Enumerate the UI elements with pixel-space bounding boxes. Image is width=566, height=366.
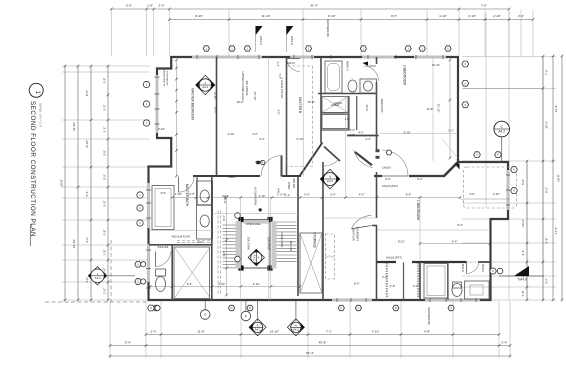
svg-text:30x SPACE: 30x SPACE (245, 80, 249, 95)
title sheet number circle (29, 83, 43, 97)
interior dim column bed2 east (449, 60, 451, 158)
svg-text:3'-5": 3'-5" (102, 78, 106, 84)
detail flag small in bath (363, 62, 369, 67)
svg-text:6'-6": 6'-6" (385, 177, 391, 181)
interior wall hall diagonal south (324, 147, 340, 162)
svg-text:MASTER BEDROOM: MASTER BEDROOM (191, 88, 195, 120)
stair stringer bar right (272, 221, 277, 269)
section marker bottom leader 1 (257, 301, 259, 321)
dimension column left segments (85, 65, 92, 302)
door bath1 (467, 261, 480, 274)
interior wall bath1 north (412, 261, 466, 263)
svg-text:4'-2": 4'-2" (358, 131, 364, 135)
svg-text:5'-4": 5'-4" (125, 340, 131, 344)
svg-text:1/6x1/6 (PKT): 1/6x1/6 (PKT) (386, 255, 402, 259)
dimension row bottom overall (109, 351, 512, 358)
grid bubble bottom x451.1 (448, 305, 454, 310)
svg-text:4'-2": 4'-2" (252, 132, 258, 136)
svg-text:2'-10": 2'-10" (468, 14, 476, 18)
svg-text:5'-6": 5'-6" (304, 192, 310, 196)
window mullion ticks deck wall (506, 175, 510, 205)
wic shelf and pole dashed (177, 240, 212, 242)
shear tag left lower y281.5 (135, 279, 141, 285)
svg-text:3'-0": 3'-0" (102, 201, 106, 207)
svg-text:8'-2": 8'-2" (545, 187, 549, 193)
master bath tub (152, 186, 174, 230)
svg-text:9'-5": 9'-5" (391, 14, 397, 18)
svg-text:20'-0": 20'-0" (236, 100, 243, 104)
svg-text:41'-4": 41'-4" (310, 3, 318, 7)
svg-text:4'-6": 4'-6" (469, 192, 475, 196)
master toilet tank (156, 269, 166, 276)
svg-text:A: A (450, 306, 452, 310)
svg-text:2'-6": 2'-6" (197, 240, 203, 244)
dimension row bottom segments (145, 329, 501, 336)
svg-text:4'-10": 4'-10" (218, 282, 225, 286)
svg-text:SHOWER DN: SHOWER DN (326, 19, 330, 36)
interior wall wic-hall vertical (211, 176, 213, 300)
door deck (382, 150, 408, 176)
detail circle C leader (501, 137, 503, 162)
exterior wall bottom (148, 299, 492, 301)
window glazing bottom wall (332, 299, 480, 301)
dimension column right inner (521, 160, 528, 302)
detail circle C/A4.2 deck (494, 121, 510, 137)
svg-text:20'-10": 20'-10" (253, 92, 257, 101)
interior wall toilet room east (196, 176, 198, 205)
door bath2 (364, 66, 379, 81)
interior dim column wic-stairs (226, 198, 228, 296)
svg-text:9'-10": 9'-10" (403, 131, 410, 135)
svg-text:15'-8": 15'-8" (308, 100, 315, 104)
stair newel posts (238, 217, 243, 222)
svg-text:4'-2": 4'-2" (85, 237, 89, 243)
svg-text:3'-2": 3'-2" (222, 251, 226, 257)
interior wall bedroom1 west upper (376, 172, 378, 218)
svg-text:17'-6": 17'-6" (554, 227, 558, 235)
svg-text:26'-2": 26'-2" (521, 219, 525, 227)
svg-text:8'-1": 8'-1" (222, 215, 226, 221)
exterior wall deck top (457, 161, 509, 163)
exterior wall right upper (457, 56, 459, 163)
svg-text:2'-1": 2'-1" (448, 129, 454, 133)
svg-text:8'-10": 8'-10" (195, 14, 203, 18)
laundry washer dashed (326, 234, 335, 256)
wall stub wic east (281, 156, 283, 177)
svg-text:8'-11": 8'-11" (398, 239, 405, 243)
interior wall hall north (193, 175, 260, 177)
grid bubble bottom x395.8 (393, 305, 399, 310)
svg-text:2'-0": 2'-0" (159, 3, 165, 7)
interior horizontal guide bed1 (377, 229, 490, 231)
extension lines top (111, 10, 533, 301)
interior horizontal guide master (150, 230, 212, 232)
svg-text:1'-10": 1'-10" (175, 192, 182, 196)
door jamb blocks bedroom2 (376, 149, 380, 152)
svg-text:4'-3": 4'-3" (359, 192, 365, 196)
section marker master bedroom 2/A4.1 (196, 75, 215, 94)
svg-text:6'-6": 6'-6" (406, 192, 412, 196)
svg-text:SHOWER DN: SHOWER DN (427, 307, 431, 324)
svg-text:LAUNDRY: LAUNDRY (356, 227, 360, 241)
window tag left lower y223 (137, 220, 143, 226)
bath1 tub (424, 264, 448, 299)
section marker left 1/A4.2 (88, 267, 106, 285)
interior wall storage east (322, 162, 324, 300)
interior dim deck width (463, 87, 543, 89)
interior wall vanity divider (447, 262, 449, 300)
master vanity sink 1 (200, 190, 209, 202)
svg-text:2'-0": 2'-0" (151, 329, 157, 333)
shear tag right (465.3,83.3) (462, 80, 469, 86)
bath1 toilet tank (453, 282, 462, 288)
window tag left upper y123 (143, 120, 149, 126)
master bath tub inner (155, 189, 171, 227)
window tag left upper y104 (143, 101, 149, 107)
dimension row bottom subtotal (109, 340, 512, 347)
upper bath tub (325, 61, 342, 93)
hex tag bedroom2 door (386, 150, 392, 155)
svg-text:2/A4.0: 2/A4.0 (259, 36, 263, 45)
bath1 vanity (465, 281, 490, 299)
svg-text:15'-0": 15'-0" (214, 106, 218, 113)
grid bubble bottom x358.4 (355, 305, 361, 310)
svg-text:2'-2": 2'-2" (413, 284, 419, 288)
door header tag square (256, 161, 259, 164)
detail circle leader D (204, 301, 206, 310)
dashed projection vertical lower-left (110, 240, 112, 302)
svg-text:A4.2: A4.2 (293, 327, 299, 331)
svg-text:10'-11": 10'-11" (432, 63, 440, 67)
svg-text:5'-6": 5'-6" (330, 192, 336, 196)
shear tag right (514,190.6) (511, 188, 518, 194)
dashed projection line lower-left (45, 301, 146, 303)
svg-text:B/A4.0: B/A4.0 (481, 264, 485, 272)
interior horizontal guide stairs upper (212, 213, 300, 215)
master bedroom tray ceiling dashed (287, 66, 312, 167)
svg-text:MASTER B: MASTER B (298, 97, 302, 113)
svg-text:1 3/4x11 7/8 LVL: 1 3/4x11 7/8 LVL (280, 78, 284, 99)
exterior wall bay vertical (170, 137, 172, 167)
interior dim line bedroom2 (380, 133, 457, 135)
svg-text:20'-2": 20'-2" (545, 121, 549, 129)
window tag left upper y84.5 (143, 81, 149, 87)
hall closet shelf (322, 115, 348, 129)
svg-text:29'-8": 29'-8" (60, 179, 64, 187)
stair rail tag circle upper (235, 213, 241, 219)
svg-text:8'-0": 8'-0" (354, 281, 360, 285)
shear tag right (465.3,64) (462, 61, 469, 67)
svg-text:36R DN: 36R DN (292, 178, 296, 188)
svg-text:C: C (357, 306, 359, 310)
grid bubble top x448 (445, 46, 451, 51)
svg-text:15'-10": 15'-10" (270, 329, 279, 333)
svg-text:4'-8": 4'-8" (424, 329, 430, 333)
svg-text:LINEN: LINEN (334, 101, 342, 105)
interior wall bath south (318, 93, 377, 95)
svg-text:A4.1: A4.1 (202, 85, 208, 89)
stair treads main run (277, 222, 297, 262)
section marker bottom 5/A4.2 (249, 319, 266, 336)
svg-text:2'-10": 2'-10" (493, 192, 500, 196)
interior horizontal guide laundry (323, 217, 377, 219)
interior wall bath east upper (376, 57, 378, 64)
detail circle bottom E (241, 311, 251, 321)
svg-text:5'-2": 5'-2" (417, 177, 423, 181)
stair rail tag circle lower (235, 256, 241, 262)
window glazing deck wall (507, 170, 509, 210)
interior vertical guide stair right (270, 197, 272, 301)
svg-text:8'-10": 8'-10" (85, 140, 89, 148)
interior wall bath west (320, 57, 322, 143)
master shower (174, 247, 210, 299)
extension lines left (62, 66, 150, 300)
svg-text:SCALE: 1/4" = 1'-0": SCALE: 1/4" = 1'-0" (39, 103, 43, 127)
door toilet room (156, 252, 171, 267)
svg-text:4'-0": 4'-0" (85, 277, 89, 283)
shear tag right (477,154.7) (474, 152, 481, 158)
interior wall hall diagonal north (300, 143, 322, 176)
svg-text:2'-2": 2'-2" (102, 127, 106, 133)
upper bath vanity (360, 79, 377, 93)
shear tag bottom-left (148, 305, 155, 311)
window glazing top wall (192, 56, 446, 58)
window tag left lower y195 (137, 192, 143, 198)
interior wall closet south (321, 129, 349, 131)
svg-text:1'-8": 1'-8" (102, 250, 106, 256)
svg-text:5'-8": 5'-8" (545, 238, 549, 244)
svg-text:OPEN RAIL: OPEN RAIL (280, 233, 284, 248)
master vanity (197, 181, 213, 239)
svg-text:1 BEDROOM: 1 BEDROOM (416, 200, 420, 221)
section marker hall 3/A4.2 (320, 169, 340, 189)
interior dim column master bedroom (176, 60, 178, 176)
bath1 toilet (452, 284, 462, 297)
svg-text:4'-10": 4'-10" (227, 132, 234, 136)
svg-text:2'-4": 2'-4" (502, 340, 508, 344)
title underline (29, 224, 31, 246)
svg-text:8'-5": 8'-5" (85, 90, 89, 96)
svg-text:9'-4": 9'-4" (457, 223, 463, 227)
exterior wall jog at deck (490, 218, 510, 220)
svg-text:12'-2": 12'-2" (554, 105, 558, 113)
interior vertical guide bath hallway (302, 57, 304, 176)
exterior wall top (170, 56, 458, 58)
shear tag right (514,169.6) (511, 167, 518, 173)
door laundry (322, 160, 338, 166)
stair top rail bar (244, 220, 270, 224)
grid bubble top x408.1 (405, 46, 411, 51)
svg-text:BATH: BATH (461, 264, 465, 272)
exterior wall top-left notch vertical (170, 56, 172, 69)
interior wall wic east (356, 96, 358, 130)
closet shelf strip left (386, 263, 388, 298)
svg-text:42 GUARDRAIL: 42 GUARDRAIL (254, 187, 258, 206)
leader diagonal to deck wall (442, 139, 458, 158)
window mullion ticks top wall (197, 55, 443, 59)
exterior wall west of deck door (374, 175, 382, 177)
dimension column far-left overall (60, 65, 67, 302)
svg-text:HALL: HALL (229, 175, 236, 179)
exterior wall notch horizontal (156, 67, 172, 69)
interior wall linen east (348, 96, 350, 130)
exterior wall left upper (156, 68, 158, 139)
dimension column right overall (557, 55, 564, 302)
interior wall bath1 north east piece (478, 261, 491, 263)
svg-text:7'-2": 7'-2" (545, 69, 549, 75)
grid bubble top x363.4 (360, 46, 366, 51)
svg-text:C: C (340, 306, 342, 310)
section marker bottom leader 2 (295, 301, 297, 321)
svg-text:9'-10": 9'-10" (328, 14, 336, 18)
svg-text:2'-8": 2'-8" (349, 133, 355, 137)
extension lines bottom (110, 301, 510, 358)
interior wall shower west (171, 245, 173, 300)
svg-text:2'-2": 2'-2" (382, 275, 388, 279)
shear tag right (498,154.7) (495, 152, 502, 158)
svg-text:3'-10": 3'-10" (158, 127, 165, 131)
svg-text:11'-8": 11'-8" (427, 107, 434, 111)
grid bubble top x422.2 (419, 46, 425, 51)
svg-text:(2x4 FLAT): (2x4 FLAT) (352, 229, 355, 241)
interior wall bath hallway west (286, 58, 288, 175)
svg-text:2'-0": 2'-0" (189, 192, 195, 196)
svg-text:3'-4": 3'-4" (349, 128, 355, 132)
detail circle C text (494, 128, 510, 130)
svg-text:1'-4": 1'-4" (276, 61, 280, 67)
interior dim line bed1 closet (420, 243, 490, 245)
grid bubble bottom x250 (247, 305, 253, 310)
svg-text:BATH 2: BATH 2 (346, 61, 350, 71)
laundry dryer dashed (326, 257, 335, 279)
svg-text:D: D (231, 306, 233, 310)
svg-text:E: E (245, 314, 247, 318)
interior wall bedroom1 south (377, 261, 396, 263)
master shower diagonals (174, 247, 211, 299)
svg-text:45'-8": 45'-8" (319, 340, 327, 344)
svg-text:SECOND FLOOR CONSTRUCTION PLAN: SECOND FLOOR CONSTRUCTION PLAN (29, 101, 36, 237)
svg-text:5'-1": 5'-1" (85, 191, 89, 197)
door header tag circle (261, 160, 265, 164)
stairwell railing box (241, 220, 270, 269)
interior vertical guide bed2 closet (432, 57, 434, 161)
svg-text:4'-10": 4'-10" (258, 194, 265, 198)
shear tag left lower y264.3 (135, 262, 141, 268)
grid bubble bottom x231.6 (229, 305, 235, 310)
grid bubble top x247.4 (244, 46, 250, 51)
svg-text:STOR BELOW: STOR BELOW (166, 71, 168, 86)
svg-text:2 BEDROOM: 2 BEDROOM (403, 65, 407, 86)
svg-text:4'-10": 4'-10" (439, 14, 447, 18)
tag circle left lower y264.3 (141, 262, 146, 267)
svg-text:2'-0": 2'-0" (102, 288, 106, 294)
svg-text:W/D (2x4 FLAT): W/D (2x4 FLAT) (172, 234, 191, 238)
window glazing left wall upper (147, 75, 158, 282)
svg-text:B: B (395, 306, 397, 310)
svg-text:1/6x1/6 (PKT): 1/6x1/6 (PKT) (380, 99, 383, 114)
exterior wall left lower (147, 166, 149, 302)
wic vertical shelf and pole dashed (217, 211, 219, 296)
svg-text:51'-4": 51'-4" (306, 351, 314, 355)
svg-text:2'-4": 2'-4" (521, 250, 525, 256)
svg-text:2'-0": 2'-0" (518, 14, 524, 18)
dimension column right mid (552, 55, 559, 302)
detail circle bottom D (200, 310, 210, 320)
grid bubble bottom x156.4 (153, 305, 159, 310)
interior vertical guide hall (268, 57, 270, 300)
dimension row top overall (110, 3, 510, 10)
black wedge at deck diagonal corner (455, 164, 460, 170)
svg-text:1'-4": 1'-4" (285, 193, 291, 197)
interior wall closet1 east (403, 263, 405, 301)
interior wall stair east (297, 176, 299, 296)
interior vertical guide center (345, 96, 347, 196)
svg-text:3'-2": 3'-2" (545, 278, 549, 284)
svg-text:2'-5": 2'-5" (102, 105, 106, 111)
interior dim row lower (150, 286, 300, 288)
upper bath sink (364, 81, 373, 91)
door bedroom2 (354, 150, 373, 168)
interior wall master bath south shelf (149, 244, 212, 246)
detail flag 2/A4.0 left (255, 26, 257, 52)
exterior wall right lower (489, 219, 491, 301)
svg-text:21'-10": 21'-10" (72, 239, 76, 248)
svg-text:2'-8": 2'-8" (390, 284, 396, 288)
window tag left lower y208 (137, 205, 143, 211)
interior wall laundry north (372, 225, 377, 227)
interior wall hall short horizontal (282, 175, 301, 177)
dimension row top segments (168, 14, 534, 21)
interior dim row mid (172, 197, 460, 199)
svg-text:9'-10": 9'-10" (213, 92, 217, 99)
grid bubble bottom x341.3 (338, 305, 344, 310)
svg-text:LINEN: LINEN (287, 182, 290, 190)
newel dot (259, 208, 262, 211)
dimension column right segments (542, 55, 549, 301)
svg-text:3'-4": 3'-4" (365, 137, 371, 141)
bath1 tub inner (427, 266, 445, 296)
interior wall laundry east (376, 226, 378, 301)
svg-text:A4.2: A4.2 (327, 179, 333, 183)
svg-text:2/A4.0: 2/A4.0 (287, 61, 295, 65)
svg-text:A4.2: A4.2 (252, 255, 256, 261)
svg-text:7'-6": 7'-6" (481, 3, 487, 7)
svg-text:5/16x1/6: 5/16x1/6 (158, 245, 169, 249)
svg-text:7'-10": 7'-10" (372, 329, 380, 333)
upper bath tub inner rounded (328, 64, 340, 91)
svg-text:MASTER BATH: MASTER BATH (185, 184, 189, 207)
svg-text:A4.2: A4.2 (498, 129, 505, 133)
exterior wall bay horizontal upper (156, 137, 172, 139)
window mullion ticks left walls (146, 77, 160, 288)
svg-text:LINEN: LINEN (255, 160, 263, 164)
stair stringer bar left (236, 221, 242, 269)
svg-text:2'-8": 2'-8" (102, 230, 106, 236)
svg-text:5'-6": 5'-6" (126, 3, 132, 7)
elevation marker T/A4.0 (499, 275, 544, 277)
svg-text:5'-8": 5'-8" (521, 179, 525, 185)
svg-text:3'-0": 3'-0" (160, 191, 166, 195)
interior wall bath1 west (419, 262, 421, 300)
bath1 sink (470, 285, 483, 295)
svg-text:1/6x1/6 (PKT): 1/6x1/6 (PKT) (382, 184, 398, 188)
svg-text:A4.2: A4.2 (255, 327, 261, 331)
detail circle leader E (245, 301, 247, 311)
stair treads left run (223, 225, 236, 268)
exterior wall bay horizontal lower (148, 165, 173, 167)
svg-text:16R STAIR: 16R STAIR (247, 237, 251, 250)
svg-text:20'-10": 20'-10" (437, 104, 441, 113)
